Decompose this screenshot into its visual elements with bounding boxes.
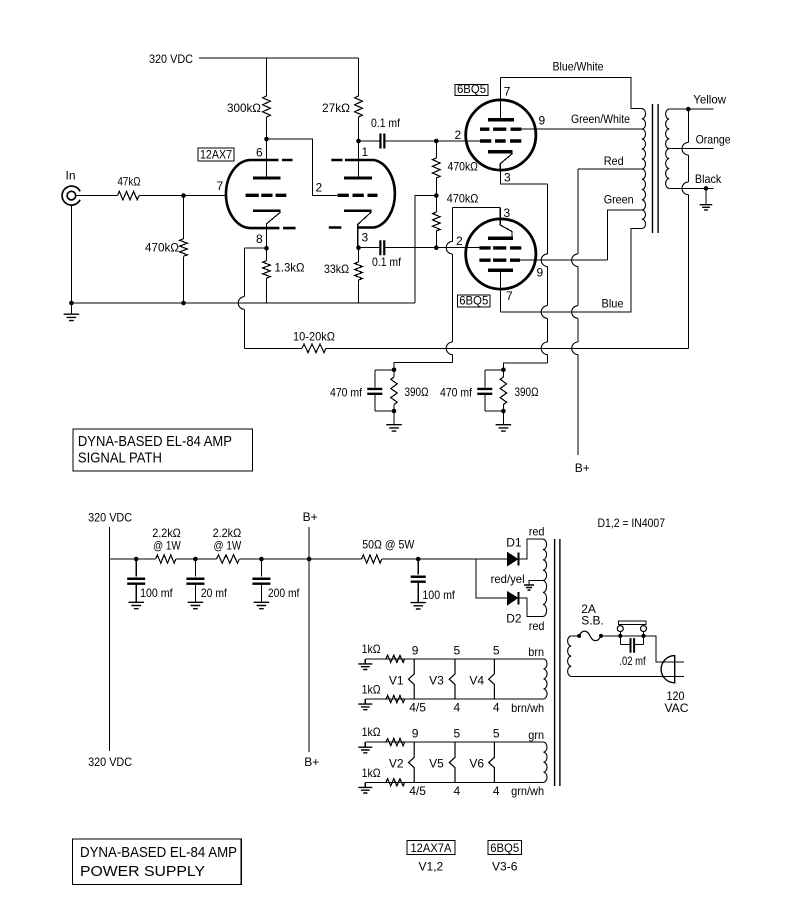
wire: to RC network 2 (503, 363, 547, 370)
svg-text:D2: D2 (506, 612, 522, 626)
svg-text:V6: V6 (469, 757, 484, 771)
ground (20mf) (188, 602, 204, 608)
wire: heater bus bottom grn (365, 781, 543, 783)
svg-text:8: 8 (256, 232, 263, 246)
wire: primary return (571, 675, 685, 677)
svg-text:V1,2: V1,2 (419, 860, 444, 874)
ground (RC2) (502, 411, 504, 425)
svg-text:4/5: 4/5 (409, 701, 426, 715)
node H (470k lower bottom) (434, 245, 439, 250)
pentode V3 cathode bar (488, 150, 512, 153)
wire: C3 top lead (374, 370, 376, 388)
ground (centre tap) (524, 585, 534, 590)
capacitor .02 mf (631, 638, 635, 653)
svg-text:6BQ5: 6BQ5 (457, 82, 486, 96)
pentode V3 grid1 bar (488, 118, 514, 121)
svg-text:50Ω @ 5W: 50Ω @ 5W (362, 537, 415, 551)
resistor 1k&#937; (brn top) (386, 655, 405, 662)
svg-text:VAC: VAC (665, 701, 689, 715)
node J (RC1 top) (392, 368, 397, 373)
transformer T1 primary (642, 109, 646, 130)
wire: Yellow tap (669, 108, 713, 110)
capacitor 200 mf (260, 559, 262, 577)
node S3 (259, 557, 264, 562)
node P (V1a cathode) (264, 246, 269, 251)
triode V1a grid (dashed) (246, 194, 287, 197)
resistor 2.2k&#937; second (217, 555, 240, 563)
svg-text:470 mf: 470 mf (330, 386, 363, 400)
resistor 33k&#937; (358, 248, 360, 262)
input jack J1 inner (67, 191, 76, 200)
resistor 470k&#937; lower (435, 196, 437, 213)
wire: B+ drop (hops) (577, 169, 579, 254)
wire: jack to 47k (76, 195, 118, 197)
capacitor C2 0.1 mf (380, 240, 384, 255)
triode V1b envelope (345, 160, 395, 228)
svg-text:@ 1W: @ 1W (153, 539, 181, 553)
resistor 2.2k&#937; first (156, 555, 176, 563)
pentode V4 cathode bar (488, 237, 513, 240)
triode V1a envelope (226, 160, 279, 228)
wire: 470k junction to ground bus (415, 196, 436, 304)
svg-text:100 mf: 100 mf (140, 586, 173, 600)
wire: Red (B+ centre tap) (578, 168, 642, 170)
capacitor 20 mf (194, 559, 196, 577)
svg-text:12AX7A: 12AX7A (410, 841, 451, 855)
wire: C1 to 6BQ5 upper grid (386, 140, 482, 142)
svg-text:6BQ5: 6BQ5 (459, 294, 488, 308)
pentode V4 grid1 bar (488, 269, 513, 272)
wire: PSU rail seg1 (109, 558, 155, 560)
svg-text:grn: grn (528, 728, 544, 742)
node I (470k junction) (434, 193, 439, 198)
resistor 470k&#937; upper (435, 141, 437, 158)
node N (RC2 bottom) (501, 409, 506, 414)
wire: plate supply V1a vertical upper (266, 58, 268, 96)
capacitor 100 mf first (135, 559, 137, 577)
svg-text:2: 2 (456, 234, 463, 248)
wire: PSU rail seg2 (176, 558, 217, 560)
node C (470k upper) (434, 139, 439, 144)
wire: cap leg right (635, 644, 643, 646)
svg-text:7: 7 (506, 289, 513, 303)
svg-text:In: In (66, 169, 76, 183)
wire: 470k input top lead (183, 196, 185, 239)
capacitor C4 470 mf (477, 389, 492, 394)
resistor 27k&#937; (355, 96, 363, 117)
svg-text:3: 3 (504, 206, 511, 220)
node E (jack ground) (69, 301, 74, 306)
wire: C2 to 6BQ5 lower grid (385, 247, 479, 249)
tube label box 12AX7A (407, 841, 455, 855)
wire: V4 cathode dropline (hops) (452, 208, 454, 242)
wire: Orange tap (669, 148, 713, 150)
switch SW1 terminal L (617, 626, 623, 632)
svg-text:1.3kΩ: 1.3kΩ (275, 261, 305, 275)
pentode V4 cathode hook (500, 208, 512, 238)
svg-text:5: 5 (493, 727, 500, 741)
svg-text:7: 7 (504, 85, 511, 99)
ground (200mf) (254, 602, 270, 608)
svg-text:red: red (529, 619, 545, 633)
svg-text:@ 1W: @ 1W (214, 539, 242, 553)
transformer T2 filament winding brn (544, 659, 548, 699)
svg-text:5: 5 (454, 643, 461, 657)
wire: V3 pin7 lead (500, 78, 502, 119)
svg-text:Orange: Orange (696, 132, 731, 146)
wire: D2 cathode to winding (520, 598, 543, 617)
resistor 47k&#937; (118, 191, 140, 199)
resistor 470k&#937; input (180, 239, 188, 256)
svg-text:B+: B+ (303, 510, 318, 524)
wire: V4 pin7 lead (500, 272, 502, 312)
wire: plate supply V1b vertical upper (358, 58, 360, 96)
svg-text:3: 3 (504, 170, 511, 184)
node F1b (599, 634, 603, 638)
wire: feedback riser (hop) (244, 248, 246, 297)
triode V1b plate (344, 176, 372, 179)
wire: B+ vertical (308, 527, 310, 752)
svg-text:1kΩ: 1kΩ (362, 642, 381, 656)
wire: V4 pin9 to Green (519, 259, 608, 261)
plug P1 (661, 656, 675, 683)
wire: switch bridge (620, 635, 643, 637)
wire: Blue (501, 229, 642, 313)
svg-text:9: 9 (537, 265, 544, 279)
tube label box 6BQ5 upper (455, 85, 488, 96)
wire: V1a plate to V1b grid (267, 139, 338, 196)
svg-text:grn/wh: grn/wh (511, 784, 544, 798)
pentode V3 cathode hook (500, 153, 512, 170)
wire: 470k input bottom lead (183, 256, 185, 303)
wire: V4 cathode lead (453, 207, 501, 209)
svg-text:4: 4 (454, 784, 461, 798)
title box: POWER SUPPLY (73, 839, 242, 885)
resistor 50&#937; 5W (362, 555, 382, 563)
node R (Black ground) (704, 186, 709, 191)
diode D2 (508, 592, 518, 605)
node SW1a (618, 634, 622, 638)
svg-text:10-20kΩ: 10-20kΩ (293, 330, 335, 344)
svg-text:12AX7: 12AX7 (200, 148, 232, 162)
pentode V3 grid2 (dashed) (480, 127, 521, 130)
svg-text:.02 mf: .02 mf (619, 654, 646, 668)
wire: Blue/White (501, 78, 642, 109)
ground (heater top grn) (364, 742, 366, 747)
svg-text:33kΩ: 33kΩ (324, 262, 349, 276)
svg-text:9: 9 (539, 113, 546, 127)
node S2 (193, 557, 198, 562)
wire: RC1 top (375, 369, 394, 371)
wire: C4 bottom lead (484, 395, 486, 411)
input jack J1 outer (62, 186, 80, 205)
ground (heater bottom brn) (364, 699, 366, 704)
wire: input jack down (70, 205, 72, 303)
svg-text:S.B.: S.B. (581, 614, 604, 628)
svg-text:red/yel: red/yel (491, 572, 525, 586)
svg-text:V3: V3 (429, 673, 444, 687)
svg-text:7: 7 (217, 179, 224, 193)
svg-text:6BQ5: 6BQ5 (490, 841, 519, 855)
heater V3 (449, 659, 455, 699)
wire: HV centre tap (529, 581, 543, 586)
triode V1a plate (253, 176, 281, 179)
wire: cap leg left (619, 636, 621, 645)
resistor 1.3k&#937; (266, 248, 268, 261)
node K (RC1 bottom) (392, 409, 397, 414)
wire: V1a plate lead (266, 117, 268, 178)
wire: ground bus rail (71, 302, 415, 304)
svg-text:20 mf: 20 mf (201, 586, 228, 600)
node F1a (577, 634, 581, 638)
wire: heater bus top brn (365, 658, 543, 660)
wire: fuse to switch (601, 635, 620, 637)
wire: V3 cathode dropline (hops) (547, 184, 549, 254)
wire: Green/White (519, 128, 642, 130)
svg-text:brn/wh: brn/wh (511, 701, 544, 715)
svg-text:V5: V5 (429, 757, 444, 771)
svg-text:0.1 mf: 0.1 mf (372, 255, 402, 269)
ground (input bus) (70, 303, 72, 314)
wire: 320 VDC top rail (199, 57, 359, 59)
wire: feedback bus (326, 347, 688, 349)
svg-text:Green: Green (604, 193, 634, 207)
node A (V1a plate) (264, 137, 269, 142)
wire: C4 top lead (484, 370, 486, 388)
pentode V3 grid3 (dashed) (480, 139, 521, 142)
transformer T2 primary (568, 636, 572, 676)
svg-text:390Ω: 390Ω (405, 385, 429, 399)
wire: Green (608, 210, 642, 260)
node S1 (134, 557, 139, 562)
wire: PSU rail seg3 (239, 558, 361, 560)
svg-text:27kΩ: 27kΩ (322, 101, 350, 115)
heater V1 (409, 659, 415, 699)
switch SW1 terminal R (641, 626, 647, 632)
resistor 10-20k&#937; (302, 344, 326, 352)
pentode V4 envelope (lower 6BQ5) (466, 219, 536, 289)
ground (100mf second) (410, 603, 426, 609)
svg-text:1kΩ: 1kΩ (362, 725, 381, 739)
heater V5 (449, 742, 455, 782)
triode V1b cathode (344, 209, 372, 212)
svg-text:470kΩ: 470kΩ (447, 191, 479, 205)
svg-text:5: 5 (454, 727, 461, 741)
wire: to RC network 1 (394, 363, 453, 370)
wire: primary top lead (571, 635, 579, 637)
svg-text:4: 4 (493, 701, 500, 715)
ground (100mf) (128, 602, 144, 608)
svg-text:V2: V2 (389, 757, 404, 771)
transformer T2 core (555, 539, 560, 786)
svg-text:Blue: Blue (602, 296, 624, 310)
wire: Black tap (669, 187, 713, 189)
tube label box 12AX7 (198, 148, 234, 161)
wire: PSU rail seg4 (382, 558, 476, 560)
capacitor C1 0.1 mf (380, 134, 384, 149)
wire: PSU left vertical (108, 527, 110, 751)
svg-text:V1: V1 (389, 673, 404, 687)
svg-text:6: 6 (256, 145, 263, 159)
pentode V3 envelope (upper 6BQ5) (466, 100, 536, 170)
svg-text:470kΩ: 470kΩ (145, 241, 179, 255)
svg-text:9: 9 (412, 727, 419, 741)
resistor 390&#937; (R2) (502, 370, 504, 377)
svg-text:SIGNAL PATH: SIGNAL PATH (78, 450, 162, 467)
svg-text:Black: Black (695, 172, 722, 186)
ground (heater top brn) (364, 659, 366, 664)
resistor 1k&#937; (brn bottom) (386, 695, 405, 702)
transformer T2 filament winding grn (544, 742, 548, 782)
wire: RC2 top (485, 369, 504, 371)
wire: heater bus top grn (365, 741, 543, 743)
svg-text:4: 4 (454, 701, 461, 715)
node D (grid junction) (181, 193, 186, 198)
svg-text:390Ω: 390Ω (515, 385, 539, 399)
svg-text:B+: B+ (575, 461, 590, 475)
svg-text:1kΩ: 1kΩ (362, 766, 381, 780)
svg-text:200 mf: 200 mf (268, 586, 300, 600)
svg-text:470 mf: 470 mf (440, 386, 473, 400)
transformer T1 core (653, 104, 659, 233)
svg-text:4/5: 4/5 (409, 784, 426, 798)
svg-text:47kΩ: 47kΩ (118, 175, 141, 189)
ground (RC1) (393, 411, 395, 425)
svg-text:D1: D1 (506, 536, 522, 550)
svg-text:Green/White: Green/White (571, 112, 630, 126)
node G (pin3/C2) (356, 245, 361, 250)
svg-text:V4: V4 (469, 673, 484, 687)
node S5 (filter out) (416, 557, 421, 562)
wire: pin3 to C2 (359, 247, 380, 249)
svg-text:Red: Red (604, 154, 624, 168)
node Q (Yellow/NFB) (686, 107, 691, 112)
wire: rectifier branch (476, 559, 508, 598)
pentode V4 grid2 (dashed) (479, 259, 520, 262)
wire: RC2 bottom (485, 410, 504, 412)
svg-text:DYNA-BASED EL-84 AMP: DYNA-BASED EL-84 AMP (78, 433, 232, 450)
svg-text:2: 2 (316, 180, 323, 194)
capacitor C3 470 mf (367, 389, 382, 394)
svg-text:V3-6: V3-6 (492, 860, 518, 874)
svg-text:0.1 mf: 0.1 mf (371, 116, 401, 130)
node B (pin 1 / coupling cap) (356, 139, 361, 144)
resistor 300k&#937; (263, 96, 271, 117)
svg-text:POWER SUPPLY: POWER SUPPLY (80, 863, 205, 880)
triode V1a cathode (253, 209, 281, 212)
svg-text:4: 4 (493, 784, 500, 798)
node S4 (B+ rail) (307, 557, 312, 562)
switch SW1 bar (618, 621, 645, 625)
ground (Black tap) (705, 188, 707, 204)
heater V4 (489, 659, 495, 699)
wire: node B to C1 (359, 140, 380, 142)
capacitor 100 mf second (417, 559, 419, 575)
wire: heater bus bottom brn (365, 698, 543, 700)
wire: switch to plug (644, 636, 685, 662)
svg-text:470kΩ: 470kΩ (448, 160, 479, 174)
wire: C3 bottom lead (374, 395, 376, 411)
svg-text:DYNA-BASED EL-84 AMP: DYNA-BASED EL-84 AMP (80, 844, 237, 861)
tube label box 6BQ5 lower (458, 295, 491, 307)
transformer T1 secondary (666, 109, 670, 149)
svg-text:3: 3 (362, 230, 369, 244)
svg-text:9: 9 (412, 643, 419, 657)
resistor 390&#937; (R1) (393, 370, 395, 377)
svg-text:brn: brn (528, 645, 544, 659)
wire: D1 cathode to winding (520, 539, 543, 559)
node F (470k ground) (181, 301, 186, 306)
heater V6 (489, 742, 495, 782)
svg-text:D1,2 = IN4007: D1,2 = IN4007 (598, 516, 666, 530)
triode V1b grid (dashed) (338, 194, 378, 197)
pentode V4 grid3 (dashed) (479, 246, 521, 249)
resistor 1k&#937; (grn bottom) (386, 779, 405, 786)
resistor 1k&#937; (grn top) (386, 739, 405, 746)
svg-text:B+: B+ (304, 755, 319, 769)
wire: V1b plate lead pin 1 (358, 117, 360, 178)
svg-text:5: 5 (493, 643, 500, 657)
svg-text:320 VDC: 320 VDC (88, 755, 132, 769)
diode D1 (508, 553, 518, 566)
svg-text:Blue/White: Blue/White (553, 60, 604, 74)
heater V2 (409, 742, 415, 782)
wire: RC1 bottom (375, 410, 394, 412)
svg-text:Yellow: Yellow (693, 93, 726, 107)
wire: V3 cathode to dropline (501, 170, 548, 184)
node M (RC2 top) (501, 368, 506, 373)
transformer T2 HV winding (543, 539, 547, 580)
fuse F1 2A (579, 631, 601, 641)
tube label box 6BQ5 (legend) (488, 841, 521, 855)
title box: SIGNAL PATH (73, 429, 253, 471)
svg-text:300kΩ: 300kΩ (227, 101, 261, 115)
wire: 47k to V1a grid pin 7 (139, 195, 227, 197)
node SW1b (641, 634, 645, 638)
svg-text:2: 2 (455, 128, 462, 142)
svg-text:320 VDC: 320 VDC (149, 52, 193, 66)
svg-text:red: red (529, 525, 545, 539)
ground (heater bottom grn) (364, 782, 366, 787)
wire: NFB drop (hops) (687, 109, 689, 142)
wire: cathode link (245, 247, 267, 249)
svg-text:320 VDC: 320 VDC (88, 511, 132, 525)
svg-text:100 mf: 100 mf (422, 588, 455, 602)
svg-text:1kΩ: 1kΩ (362, 683, 381, 697)
svg-text:1: 1 (362, 145, 369, 159)
wire: feedback to V1a cathode (245, 347, 303, 349)
